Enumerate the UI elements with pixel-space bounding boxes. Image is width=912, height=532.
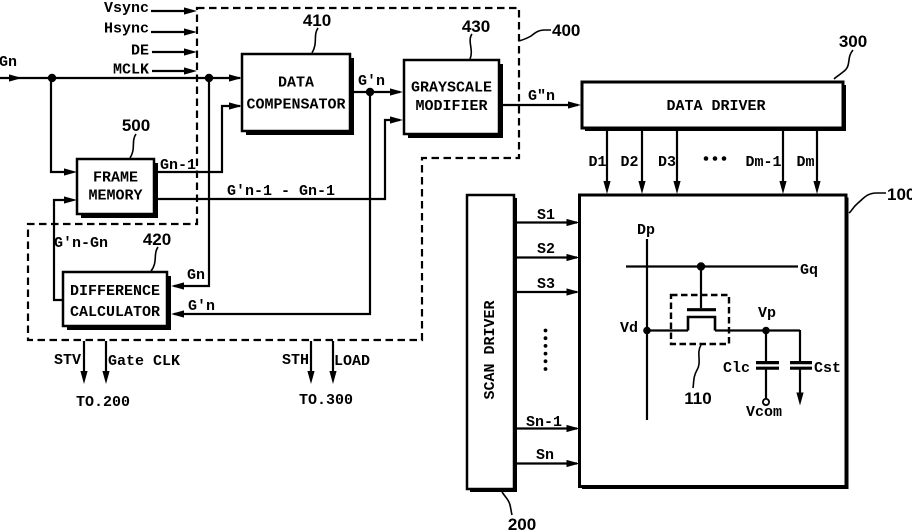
wire S3 (517, 276, 580, 296)
wire G'n feedback to difference calculator (171, 92, 370, 318)
svg-text:Dm-1: Dm-1 (745, 154, 781, 171)
block U100 liquid crystal panel (580, 195, 849, 489)
wire Gn to difference calculator (174, 78, 209, 286)
svg-text:Gq: Gq (800, 262, 818, 279)
svg-text:FRAME: FRAME (93, 170, 138, 187)
terminal Vcom (746, 399, 782, 421)
svg-text:Gn: Gn (187, 267, 205, 284)
label 410 (303, 11, 331, 53)
wire MCLK (113, 62, 197, 79)
wire Gn to frame memory (51, 78, 72, 172)
svg-text:TO.200: TO.200 (76, 394, 130, 411)
label 430 (462, 17, 490, 59)
wire Hsync (104, 21, 197, 38)
svg-text:TO.300: TO.300 (299, 392, 353, 409)
svg-text:400: 400 (552, 21, 580, 40)
block U300 DATA DRIVER (582, 82, 846, 131)
wire S2 (517, 241, 580, 261)
svg-text:G"n: G"n (528, 88, 555, 105)
capacitor Cst (790, 330, 841, 406)
svg-text:420: 420 (143, 230, 171, 249)
svg-text:G'n: G'n (358, 73, 385, 90)
svg-text:Sn-1: Sn-1 (526, 414, 562, 431)
svg-text:DE: DE (131, 43, 149, 60)
block U420 DIFFERENCE CALCULATOR (63, 272, 171, 330)
svg-text:LOAD: LOAD (334, 353, 370, 370)
svg-text:S1: S1 (537, 207, 555, 224)
svg-text:STH: STH (282, 352, 309, 369)
svg-text:DIFFERENCE: DIFFERENCE (70, 283, 160, 300)
wire D1 (588, 130, 610, 194)
label 200 (502, 492, 536, 532)
svg-text:DATA DRIVER: DATA DRIVER (666, 98, 765, 115)
svg-text:MCLK: MCLK (113, 62, 149, 79)
wire Sn-1 (517, 414, 580, 432)
dashed region 400 boundary (28, 8, 519, 340)
svg-text:GRAYSCALE: GRAYSCALE (411, 80, 492, 97)
wire STV output (54, 341, 88, 384)
svg-text:Hsync: Hsync (104, 21, 149, 38)
svg-text:Dp: Dp (637, 222, 655, 239)
node gate junction on Gq (697, 262, 705, 270)
svg-text:500: 500 (122, 116, 150, 135)
wire Gq gate line (626, 262, 818, 279)
svg-text:SCAN DRIVER: SCAN DRIVER (482, 300, 499, 399)
svg-text:Clc: Clc (723, 360, 750, 377)
svg-text:Vcom: Vcom (746, 404, 782, 421)
wire G"n (grayscale modifier to data driver) (501, 88, 581, 109)
svg-text:CALCULATOR: CALCULATOR (70, 304, 160, 321)
ellipsis between D3 and Dm-1 (704, 156, 727, 161)
label 300 (834, 32, 867, 79)
wire Vsync (104, 0, 197, 17)
svg-text:S3: S3 (537, 276, 555, 293)
wire Vd to TFT source (647, 329, 688, 331)
wire Gn-1 (frame memory to data compensator) (153, 102, 242, 174)
svg-text:Sn: Sn (536, 447, 554, 464)
svg-text:G'n: G'n (188, 298, 215, 315)
wire D2 (620, 130, 645, 194)
block U500 FRAME MEMORY (77, 159, 158, 218)
label 420 (143, 230, 171, 271)
svg-text:200: 200 (508, 515, 536, 532)
svg-text:Dm: Dm (796, 154, 814, 171)
wire Dp data line (637, 222, 655, 420)
wire D3 (658, 130, 681, 194)
label 110 (684, 345, 711, 408)
svg-text:D1: D1 (588, 154, 606, 171)
svg-text:410: 410 (303, 11, 331, 30)
node G'n junction (366, 88, 374, 96)
transistor 110 dashed outline (671, 295, 729, 344)
label 500 (122, 116, 150, 158)
svg-text:300: 300 (839, 32, 867, 51)
arrow Gn into data compensator (229, 74, 242, 81)
svg-text:100: 100 (887, 185, 912, 204)
wire Sn (517, 447, 580, 467)
svg-text:COMPENSATOR: COMPENSATOR (246, 97, 345, 114)
svg-text:Gn-1: Gn-1 (160, 157, 196, 174)
svg-text:STV: STV (54, 352, 81, 369)
wire LOAD output (329, 341, 370, 384)
block U430 GRAYSCALE MODIFIER (404, 60, 503, 138)
wire G'n-1 - Gn-1 (frame memory to grayscale modifier) (153, 116, 403, 200)
wire Dm (796, 130, 820, 194)
ellipsis scan lines (544, 329, 548, 371)
svg-text:Gate CLK: Gate CLK (108, 353, 180, 370)
wire S1 (517, 207, 580, 226)
svg-text:Vd: Vd (620, 320, 638, 337)
svg-text:110: 110 (684, 389, 711, 408)
svg-text:430: 430 (462, 17, 490, 36)
node Vd on data line (620, 320, 651, 337)
svg-text:Vsync: Vsync (104, 0, 149, 17)
svg-text:G'n-1 - Gn-1: G'n-1 - Gn-1 (227, 183, 335, 200)
node Gn junction A (to frame memory) (48, 74, 56, 82)
label 100 (849, 185, 912, 213)
block U200 SCAN DRIVER (467, 195, 517, 492)
wire Dm-1 (745, 130, 786, 194)
wire DE (131, 43, 197, 60)
svg-text:D3: D3 (658, 154, 676, 171)
svg-text:G'n-Gn: G'n-Gn (54, 235, 108, 252)
wire G'n output of data compensator (352, 91, 400, 93)
wire TFT drain to Vp (715, 329, 800, 331)
svg-text:S2: S2 (537, 241, 555, 258)
svg-text:MEMORY: MEMORY (88, 188, 142, 205)
node Gn junction B (to difference calculator) (205, 74, 213, 82)
arrow on Gn input wire (9, 74, 22, 81)
label 400 (519, 21, 580, 41)
wire Gn main input (0, 77, 240, 79)
wire Gate CLK output (102, 341, 180, 384)
capacitor Clc (723, 330, 779, 399)
wire G'n-Gn feedback (difference calculator to frame memory) (54, 196, 108, 300)
wire STH output (282, 341, 315, 384)
node Vp (758, 305, 776, 334)
svg-text:Vp: Vp (758, 305, 776, 322)
svg-text:MODIFIER: MODIFIER (415, 98, 487, 115)
svg-text:Gn: Gn (0, 54, 17, 71)
transistor 110 TFT symbol (687, 267, 716, 331)
svg-text:DATA: DATA (278, 75, 314, 92)
svg-text:Cst: Cst (814, 360, 841, 377)
svg-text:D2: D2 (620, 154, 638, 171)
block U410 DATA COMPENSATOR (242, 54, 354, 135)
